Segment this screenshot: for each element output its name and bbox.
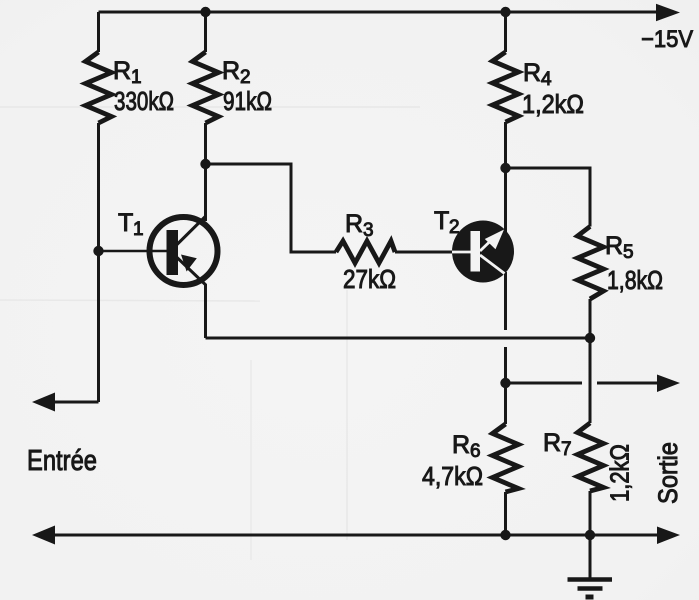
arrowhead input upper left	[32, 393, 55, 412]
T2 emitter line (white)	[480, 239, 493, 252]
arrowhead output (Sortie)	[657, 375, 680, 393]
wire output left segment	[506, 382, 583, 385]
T1 base bar	[167, 230, 179, 275]
junction dot output tee	[500, 378, 510, 388]
svg-text:4: 4	[541, 69, 552, 90]
svg-text:R: R	[605, 232, 623, 260]
svg-text:1,8kΩ: 1,8kΩ	[607, 265, 663, 295]
svg-text:7: 7	[561, 439, 572, 460]
node B dot	[500, 163, 510, 173]
junction dot top R4	[500, 7, 510, 17]
wire T2 bottom segment below crossing gap to R6	[504, 347, 507, 424]
svg-text:4,7kΩ: 4,7kΩ	[422, 461, 483, 491]
T1 circle	[150, 217, 218, 285]
resistor R1	[86, 52, 112, 123]
svg-text:R: R	[523, 59, 541, 87]
wire R7 top lead	[589, 338, 592, 423]
svg-text:−15V: −15V	[641, 26, 693, 53]
resistor R2	[193, 52, 219, 123]
T1 emitter line	[177, 258, 206, 286]
faint grid line h2	[0, 300, 260, 301]
svg-text:1: 1	[131, 67, 142, 88]
transistor T2	[452, 221, 514, 283]
T1 emitter arrow	[181, 255, 197, 272]
faint grid line v2	[250, 360, 252, 560]
svg-text:R: R	[222, 57, 240, 85]
wire input horizontal to arrow	[54, 401, 99, 404]
resistor R3	[336, 241, 395, 263]
resistor R7	[578, 423, 604, 491]
resistor R6	[493, 424, 519, 492]
svg-text:2: 2	[449, 217, 460, 238]
transistor T1	[99, 216, 218, 285]
wire T1 emitter down	[204, 284, 207, 338]
wire bottom rail	[54, 534, 659, 537]
ground	[568, 580, 613, 598]
svg-text:6: 6	[470, 441, 481, 462]
svg-text:27kΩ: 27kΩ	[343, 264, 396, 294]
T2 filled body	[452, 221, 514, 283]
resistor R5	[578, 227, 604, 300]
wire T2 bottom segment above crossing gap	[504, 272, 507, 330]
wire R5 bottom lead	[589, 299, 592, 338]
T2 base line (white)	[452, 251, 471, 254]
wire R2 bottom lead down into T1 collector	[204, 123, 207, 221]
svg-text:3: 3	[363, 220, 374, 241]
faint grid line v1	[346, 290, 348, 540]
wire R1 branch top lead	[97, 12, 100, 52]
svg-text:R: R	[452, 431, 470, 459]
svg-text:1,2kΩ: 1,2kΩ	[522, 89, 584, 119]
arrowhead bottom rail left	[32, 526, 55, 545]
resistor R4	[493, 52, 519, 122]
faint grid line h1	[0, 106, 420, 108]
T2 emitter arrow (white)	[485, 230, 504, 250]
wire R6 bottom lead	[504, 492, 507, 535]
svg-text:T: T	[118, 209, 133, 237]
wire node B right to R5	[506, 168, 591, 227]
svg-text:91kΩ: 91kΩ	[223, 86, 272, 116]
svg-text:R: R	[543, 429, 561, 457]
wire R1 bottom lead down to input corner	[97, 123, 100, 402]
svg-text:Entrée: Entrée	[27, 445, 97, 477]
T1 collector line	[177, 216, 206, 245]
junction dot T1 base tee	[93, 246, 103, 256]
node A dot	[200, 159, 210, 169]
svg-text:T: T	[434, 207, 449, 235]
T2 collector line (white)	[480, 255, 505, 274]
svg-text:R: R	[345, 210, 363, 238]
wire R4 branch top lead	[504, 12, 507, 52]
junction dot top R2	[200, 7, 210, 17]
wire R4 bottom lead to node B	[504, 122, 507, 168]
svg-text:5: 5	[623, 242, 634, 263]
arrowhead -15V supply	[656, 4, 680, 21]
wire output right segment to arrow	[597, 382, 659, 385]
T1 base wire	[99, 250, 168, 253]
wire top rail	[99, 11, 660, 14]
junction dot bottom rail R6	[500, 530, 510, 540]
wire T1 emitter to R5 bottom	[206, 337, 591, 340]
svg-text:1,2kΩ: 1,2kΩ	[605, 444, 635, 502]
svg-text:2: 2	[240, 67, 251, 88]
arrowhead bottom rail right	[657, 527, 680, 545]
wire node B to T2 top	[504, 168, 507, 232]
wire R7 bottom lead to ground rail	[589, 491, 592, 579]
svg-text:1: 1	[133, 219, 144, 240]
wire node A to R3 corner	[206, 164, 337, 252]
wire R2 branch top lead	[204, 12, 207, 52]
wire R3 right lead to T2 base	[395, 251, 454, 254]
svg-text:330kΩ: 330kΩ	[114, 86, 174, 116]
svg-text:R: R	[113, 57, 131, 85]
T2 base bar (white)	[471, 231, 481, 272]
junction dot bottom rail R7	[585, 530, 595, 540]
junction dot R5 bottom	[585, 333, 595, 343]
svg-text:Sortie: Sortie	[653, 442, 683, 504]
